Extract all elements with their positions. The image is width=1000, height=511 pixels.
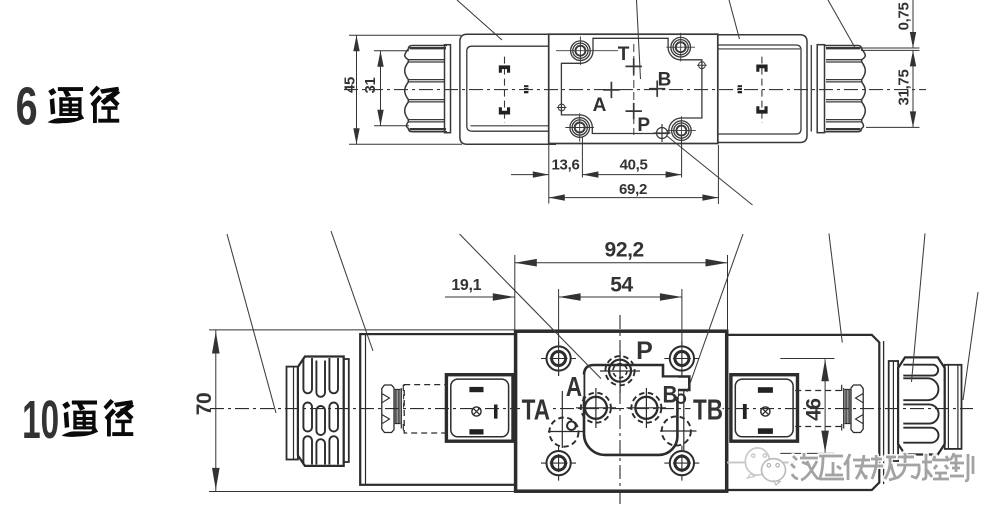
svg-text:B: B [658, 70, 672, 91]
leader lines top drawing [457, 0, 856, 205]
svg-text:31,75: 31,75 [896, 69, 913, 105]
left solenoid housing outer [460, 34, 556, 144]
white backing for bottom labels [520, 375, 723, 421]
port circles [549, 356, 691, 447]
locating pin symbols [557, 60, 707, 112]
left knurl collar [445, 45, 451, 133]
chuan [844, 454, 871, 480]
svg-text:10: 10 [22, 390, 59, 450]
right knurl slots [903, 365, 938, 443]
left solenoid housing inner [467, 46, 549, 131]
port crosshairs [548, 351, 697, 450]
left plug connector [446, 375, 513, 442]
ye [791, 453, 818, 480]
port axis dashed line [633, 44, 635, 135]
svg-text:6: 6 [16, 77, 38, 137]
dimension 46 [780, 359, 834, 454]
watermark logo [727, 448, 794, 485]
vertical centerline valve [619, 315, 621, 508]
chuan [844, 454, 871, 480]
dimension 31 [374, 51, 409, 126]
mounting holes [556, 33, 696, 145]
inner contour [584, 365, 689, 455]
nameplate tiny mark [524, 85, 528, 93]
right knurled nut [817, 45, 865, 133]
dimensions 0,75 and 31,75 right side [861, 0, 920, 127]
svg-text:TB: TB [693, 395, 723, 426]
dimension 54 and 19,1 [445, 289, 682, 376]
svg-text:13,6: 13,6 [552, 157, 580, 174]
inner contour [561, 38, 702, 133]
left solenoid body [360, 334, 515, 485]
mounting holes bottom valve [541, 341, 699, 481]
right manual override adjuster [842, 385, 864, 433]
svg-text:A: A [566, 372, 582, 403]
svg-text:54: 54 [610, 274, 633, 297]
svg-text:19,1: 19,1 [451, 277, 481, 294]
dimension 92,2 [515, 255, 728, 331]
left knurl slots [303, 358, 338, 465]
watermark text (gray hanzi strokes) [791, 453, 973, 481]
right solenoid internals [761, 57, 763, 123]
left manual override adjuster [382, 385, 404, 433]
svg-text:A: A [593, 95, 607, 116]
collar line between solenoid and nut [810, 45, 812, 132]
svg-text:P: P [637, 115, 650, 136]
bottom dimensions 13,6 / 40,5 / 69,2 [511, 137, 718, 205]
position tolerance symbol near P [654, 124, 671, 142]
kong [922, 454, 949, 479]
svg-text:TA: TA [522, 395, 550, 426]
svg-text:B: B [662, 380, 677, 408]
svg-text:40,5: 40,5 [620, 157, 648, 174]
right solenoid housing inner [717, 45, 801, 134]
right solenoid housing outer [718, 35, 807, 143]
dashed links to adjuster [795, 391, 841, 427]
right knurl body [898, 357, 945, 454]
valve body [516, 331, 727, 491]
svg-text:45: 45 [342, 77, 359, 93]
dong [870, 455, 896, 480]
left solenoid internals: dashed axis + armature marks [504, 57, 506, 123]
svg-text:69,2: 69,2 [619, 181, 647, 198]
svg-text:T: T [618, 44, 630, 65]
svg-text:46: 46 [803, 398, 826, 421]
zhi [950, 453, 973, 481]
left end cap [287, 367, 298, 460]
yu [897, 453, 919, 478]
dimension 70 [209, 330, 516, 492]
yu [897, 453, 919, 478]
left knurl collar [344, 359, 349, 462]
ya [819, 456, 844, 480]
zhi [950, 453, 973, 481]
right knurl collar [889, 361, 898, 461]
dong [870, 455, 896, 480]
leader lines bottom drawing [227, 231, 978, 413]
dimension 45 [349, 35, 462, 144]
ye [791, 453, 818, 480]
svg-text:31: 31 [362, 77, 379, 93]
centerline top drawing [344, 89, 926, 91]
dashed rect between adjuster and plug [404, 385, 446, 433]
left knurled nut [405, 45, 451, 133]
ya [819, 456, 844, 480]
right end cap [945, 365, 962, 449]
port crosses T A B P [603, 58, 665, 119]
valve body (subplate) [549, 34, 718, 143]
svg-text:70: 70 [193, 393, 216, 416]
left knurl body [298, 357, 344, 466]
centerline bottom drawing [210, 408, 973, 410]
right solenoid body [728, 335, 879, 490]
svg-text:P: P [636, 337, 653, 365]
svg-text:0,75: 0,75 [896, 2, 913, 30]
svg-text:92,2: 92,2 [605, 239, 644, 262]
right plug connector [731, 375, 798, 442]
kong [922, 454, 949, 479]
